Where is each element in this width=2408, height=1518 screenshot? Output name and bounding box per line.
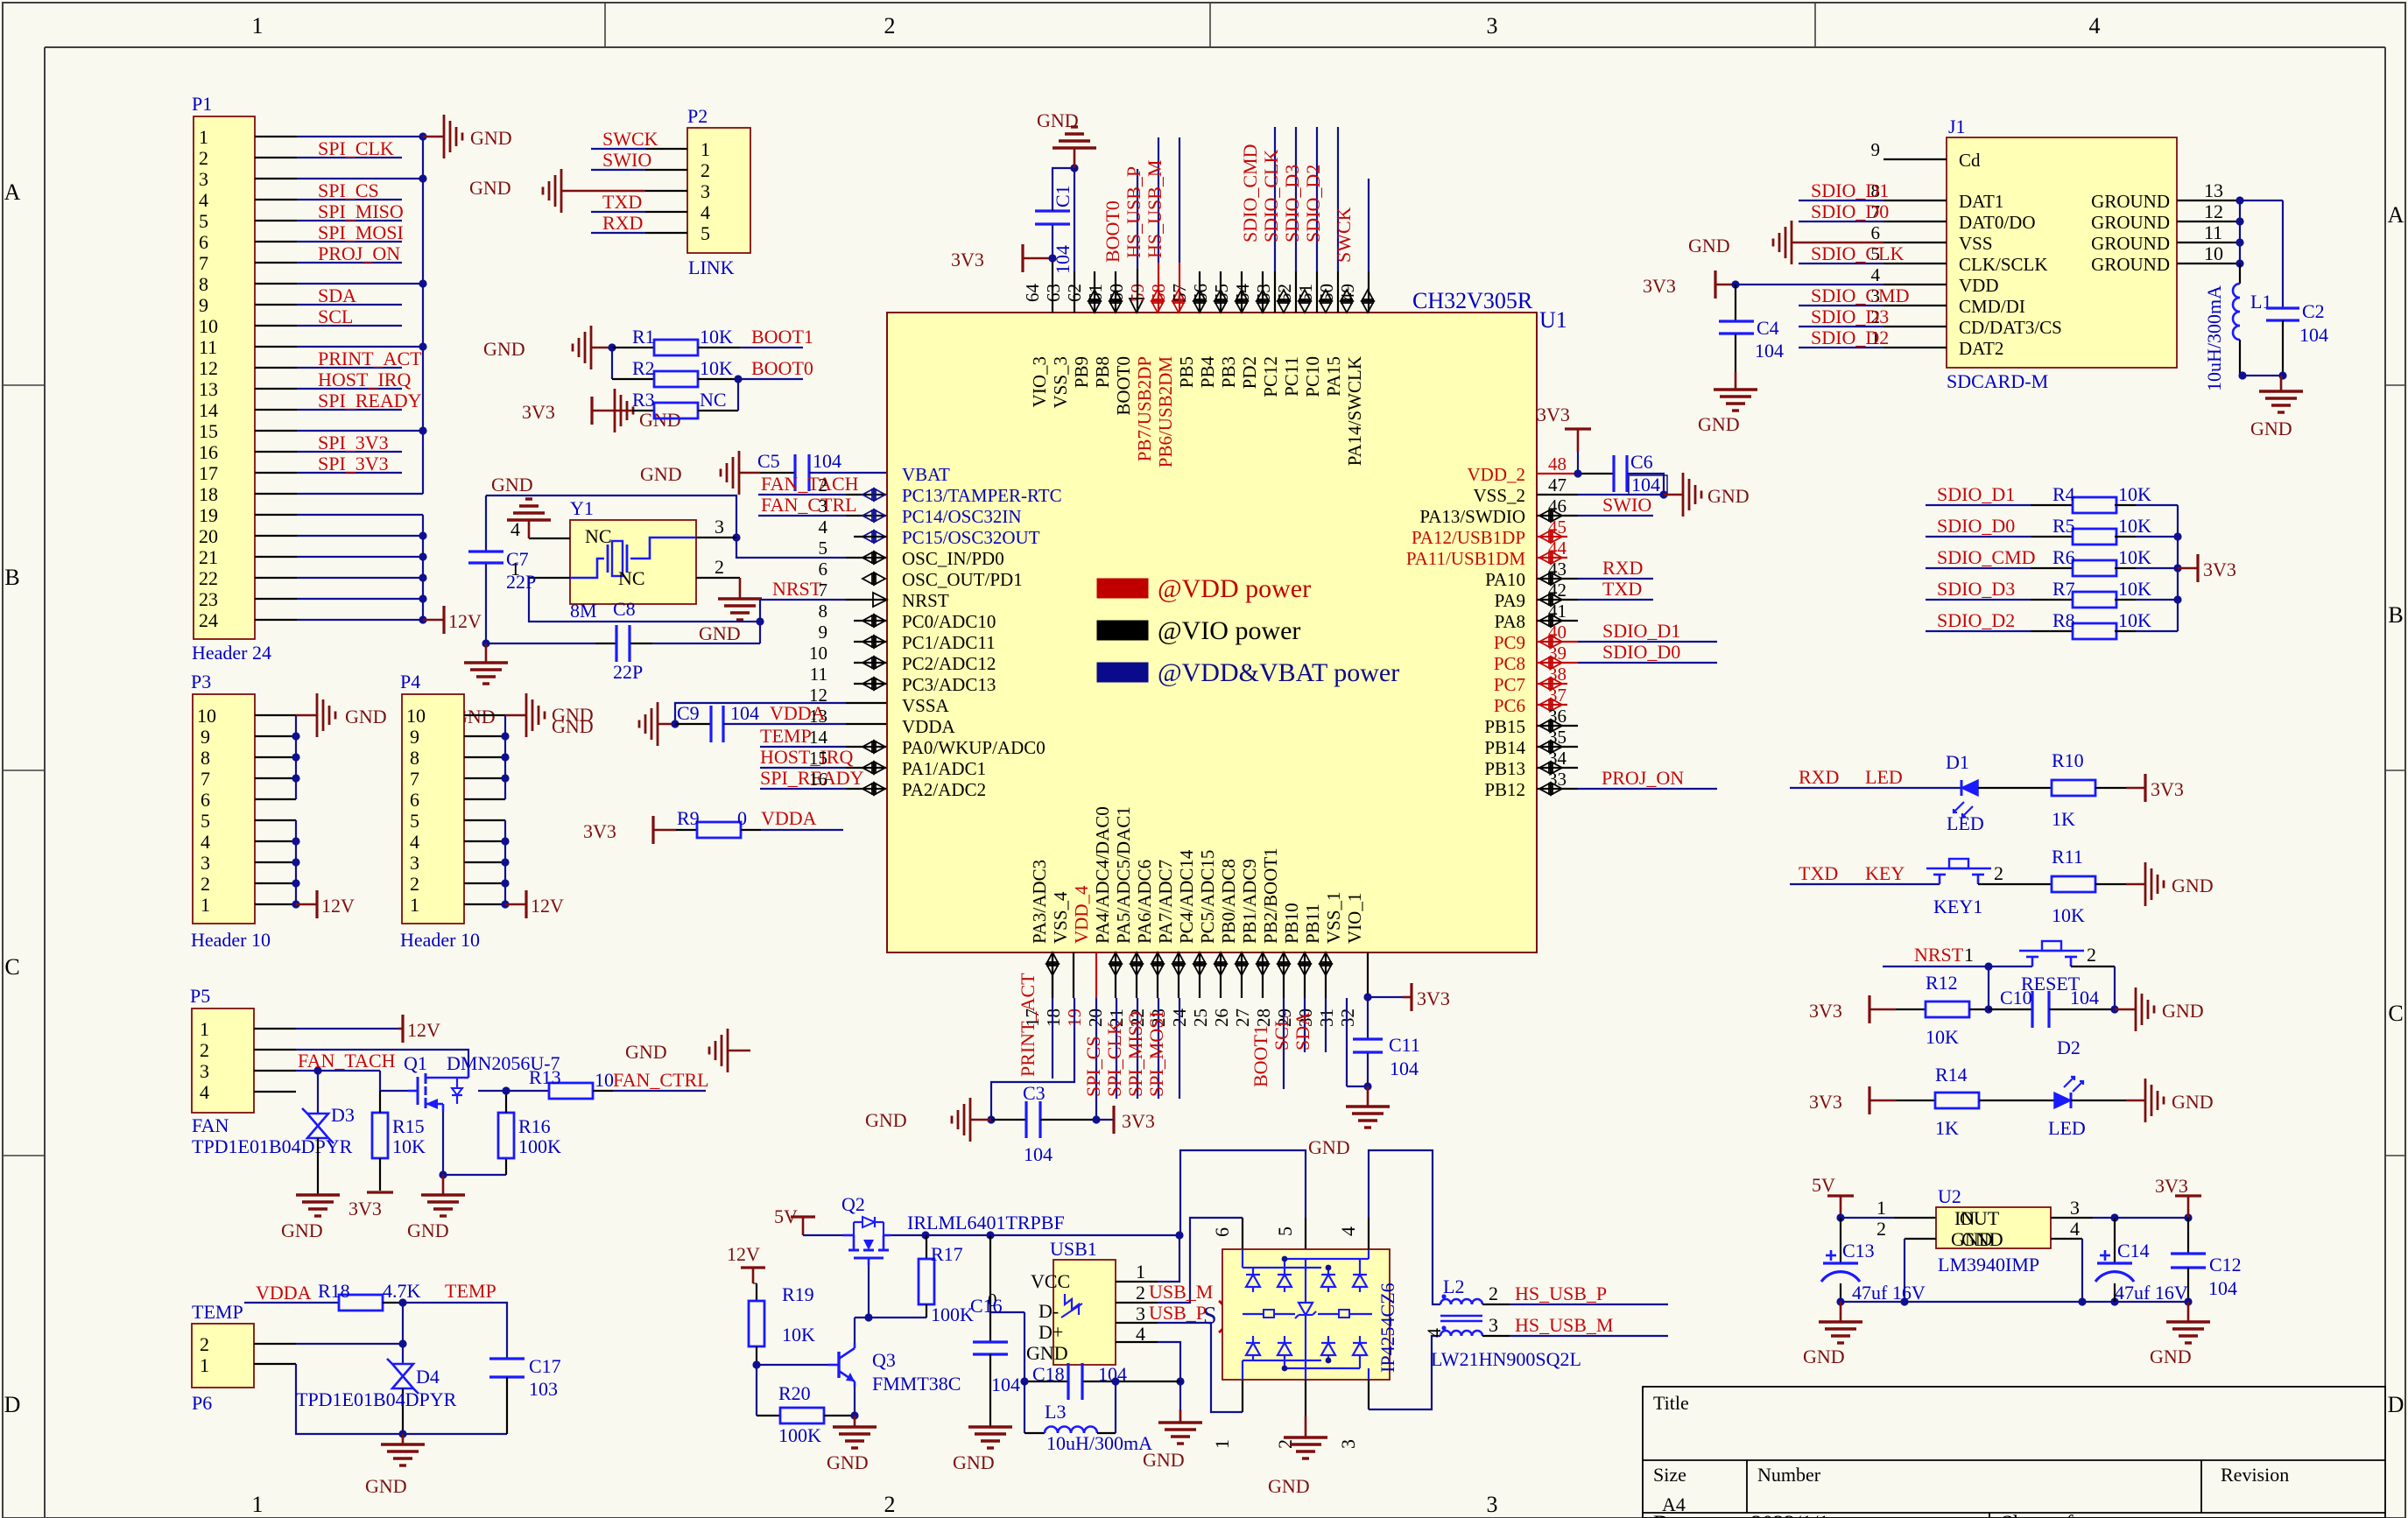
wire HOST_IRQ stub	[760, 767, 887, 769]
svg-text:104: 104	[2299, 324, 2328, 346]
regulator U2 LM3940IMP	[1936, 1207, 2051, 1248]
svg-text:50: 50	[1316, 284, 1337, 302]
pin 1 J1 DAT2	[1871, 327, 2004, 359]
svg-text:USB1: USB1	[1050, 1238, 1097, 1260]
power 3V3 R10	[2145, 774, 2184, 802]
part LW21HN900SQ2L	[1431, 1348, 1581, 1370]
value 47uf 16V C13	[1852, 1282, 1926, 1304]
svg-text:10: 10	[406, 705, 426, 727]
svg-text:5V: 5V	[1812, 1174, 1835, 1196]
junction C13 gnd	[1836, 1297, 1844, 1305]
svg-text:SPI_MOSI: SPI_MOSI	[1145, 1011, 1167, 1097]
svg-text:13: 13	[199, 378, 218, 400]
net label SDIO_CLK vertical	[1260, 150, 1282, 242]
value 104 C10	[2070, 987, 2099, 1008]
wire SDIO_D1 J1	[1799, 200, 1883, 201]
pin 43 PA10	[1485, 559, 1567, 590]
svg-text:15: 15	[809, 748, 827, 769]
svg-text:C6: C6	[1630, 451, 1653, 473]
ground earth C13	[1819, 1302, 1862, 1343]
ground earth Q3	[833, 1416, 877, 1448]
svg-text:3V3: 3V3	[2151, 778, 2184, 800]
esd array U3 IP4254CZ6 body	[1222, 1249, 1390, 1380]
resistor R2	[654, 371, 738, 387]
legend text @VDD power	[1158, 574, 1311, 603]
net label SDA	[318, 285, 356, 306]
svg-text:SDIO_D1: SDIO_D1	[1937, 483, 2015, 505]
svg-text:VIO_1: VIO_1	[1344, 893, 1365, 944]
junction C10 right	[2110, 1005, 2118, 1013]
net label HOST_IRQ	[318, 369, 411, 390]
svg-text:PB12: PB12	[1484, 779, 1525, 800]
pin 5 J1 CLK/SCLK	[1871, 243, 2048, 275]
net label SWIO	[602, 149, 651, 171]
svg-text:9: 9	[1871, 139, 1881, 160]
svg-text:PA12/USB1DP: PA12/USB1DP	[1412, 527, 1525, 548]
svg-text:GND: GND	[1026, 1342, 1068, 1364]
label C13	[1842, 1240, 1875, 1261]
pin number 5 IP4254	[1274, 1226, 1296, 1236]
pin number 3 L2	[1489, 1314, 1498, 1336]
junction rail USB1	[1175, 1231, 1183, 1239]
junction R16 top	[502, 1086, 510, 1094]
svg-text:DAT0/DO: DAT0/DO	[1959, 212, 2036, 233]
svg-text:2: 2	[1994, 862, 2003, 884]
svg-text:1: 1	[1964, 944, 1974, 966]
junction Q1 source R16	[439, 1170, 447, 1178]
svg-text:3: 3	[1337, 1439, 1359, 1449]
svg-text:3: 3	[200, 1060, 209, 1082]
svg-text:R14: R14	[1935, 1064, 1968, 1086]
svg-text:R2: R2	[632, 357, 655, 379]
P1 pin numbers	[199, 126, 218, 631]
net label SPI_READY	[318, 390, 422, 411]
svg-text:FAN: FAN	[192, 1114, 229, 1136]
value 104 C3	[1024, 1143, 1053, 1165]
power text GND P4 b	[552, 715, 594, 737]
pin number 2 L2	[1489, 1283, 1498, 1304]
legend VDD power swatch	[1097, 579, 1148, 598]
value 10K R12	[1926, 1026, 1959, 1048]
net label FAN_TACH P5	[298, 1050, 396, 1072]
svg-text:24: 24	[199, 609, 218, 631]
wire TXD_KEY	[1790, 883, 1940, 885]
label C6	[1630, 451, 1653, 473]
wire PRINT_ACT vertical	[1052, 952, 1053, 1079]
svg-text:PC12: PC12	[1260, 356, 1281, 397]
net label PROJ_ON	[318, 242, 400, 264]
wire SCL vertical	[1304, 998, 1306, 1052]
pin 50 PA15	[1316, 284, 1353, 397]
svg-text:15: 15	[199, 420, 218, 442]
svg-text:6: 6	[201, 789, 210, 811]
svg-text:SWCK: SWCK	[1333, 207, 1355, 263]
svg-text:10K: 10K	[700, 357, 733, 379]
pin 37 PC6	[1494, 685, 1567, 716]
svg-text:Q2: Q2	[841, 1193, 865, 1215]
svg-text:12V: 12V	[321, 895, 355, 917]
power 3V3 at R9	[583, 816, 676, 844]
net label SDIO_D0 pullup	[1937, 515, 2015, 537]
svg-text:GND: GND	[469, 177, 511, 199]
svg-text:25: 25	[1190, 1008, 1211, 1027]
svg-text:VDD_2: VDD_2	[1468, 464, 1526, 485]
svg-text:8: 8	[201, 747, 210, 769]
svg-text:3: 3	[1487, 1492, 1498, 1517]
net label USB_M	[1149, 1281, 1213, 1303]
svg-text:C11: C11	[1389, 1034, 1420, 1056]
pin 24 PC4/ADC14	[1169, 849, 1206, 1027]
svg-text:18: 18	[199, 483, 218, 505]
pin 35 PB14	[1484, 727, 1578, 758]
value 8M	[570, 600, 597, 622]
ground GND at R1	[573, 326, 612, 369]
svg-text:C14: C14	[2117, 1240, 2150, 1261]
svg-text:SDCARD-M: SDCARD-M	[1947, 370, 2048, 392]
svg-text:SDIO_D2: SDIO_D2	[1937, 609, 2015, 631]
svg-text:C2: C2	[2302, 300, 2325, 322]
wire SDIO_D0 right	[1537, 662, 1717, 664]
svg-text:11: 11	[810, 664, 827, 685]
ground GND at C6	[1664, 473, 1701, 517]
P3 pin numbers	[197, 705, 216, 916]
ground GND at C5	[721, 451, 760, 495]
junction Y1 pin3	[732, 533, 740, 541]
designator U2	[1938, 1185, 1961, 1207]
zone numbers top	[252, 13, 2101, 39]
svg-text:GND: GND	[640, 463, 682, 485]
P2 pin numbers	[701, 138, 710, 244]
pin number 1 RESET	[1964, 944, 1974, 966]
power text GND C16	[953, 1451, 995, 1473]
label R15	[392, 1115, 425, 1137]
pin 16 PA2/ADC2	[809, 769, 986, 800]
svg-text:GND: GND	[1698, 413, 1740, 435]
zone numbers bottom	[252, 1492, 1498, 1517]
svg-text:PB1/ADC9: PB1/ADC9	[1239, 859, 1260, 944]
junction rail R17	[921, 1231, 929, 1239]
junction FAN_TACH D3	[313, 1066, 321, 1074]
svg-text:PA10: PA10	[1485, 569, 1525, 590]
svg-text:SPI_CS: SPI_CS	[1082, 1036, 1104, 1097]
wire RXD	[1537, 578, 1653, 580]
wire BOOT0	[738, 378, 803, 380]
svg-text:HS_USB_P: HS_USB_P	[1515, 1283, 1607, 1304]
svg-text:GROUND: GROUND	[2091, 212, 2170, 233]
svg-text:56: 56	[1190, 284, 1211, 302]
pin 6 J1 VSS	[1871, 222, 1993, 254]
comment P6	[192, 1392, 212, 1414]
svg-text:3V3: 3V3	[1122, 1110, 1155, 1132]
value 10uH/300mA L3	[1046, 1432, 1152, 1454]
junction C7 bottom	[482, 639, 489, 647]
wire VSS_2 pin47	[1537, 494, 1664, 495]
wire P1 pin 6 net SPI_MOSI	[297, 241, 402, 242]
resistor R17	[919, 1235, 934, 1318]
label GND GND overlap	[1951, 1228, 2003, 1250]
svg-text:1: 1	[201, 894, 210, 916]
wire RESET to C10 right	[2071, 966, 2115, 1009]
wire P1 pin 2 net SPI_CLK	[297, 157, 402, 158]
svg-text:R15: R15	[392, 1115, 425, 1137]
svg-text:PC5/ADC15: PC5/ADC15	[1197, 850, 1218, 944]
svg-text:Q3: Q3	[872, 1349, 896, 1371]
svg-text:100K: 100K	[778, 1424, 821, 1446]
designator P1	[192, 93, 212, 115]
svg-text:SPI_CLK: SPI_CLK	[318, 137, 394, 159]
pin 6 OSC_OUT/PD1	[819, 559, 1023, 590]
designator J1	[1948, 116, 1966, 137]
wire SDA vertical	[1325, 998, 1327, 1052]
pin 64 VIO_3	[1022, 284, 1050, 408]
net label VDDA R9	[761, 807, 817, 829]
svg-text:VSS_2: VSS_2	[1473, 485, 1525, 506]
svg-text:104: 104	[2208, 1277, 2237, 1299]
net label SDIO_D3 J1	[1811, 306, 1889, 327]
ground earth C12	[2166, 1302, 2210, 1343]
svg-text:DAT2: DAT2	[1959, 338, 2003, 359]
diode D2 LED	[2054, 1077, 2083, 1108]
pin 7 NRST	[819, 580, 949, 611]
power 12V P3	[296, 890, 355, 918]
zone row ticks left	[3, 385, 45, 1156]
svg-text:PB5: PB5	[1176, 356, 1197, 388]
svg-text:11: 11	[2204, 221, 2222, 243]
mcu U1 CH32V305R body	[887, 313, 1537, 952]
svg-text:VSS_1: VSS_1	[1323, 891, 1344, 944]
wire SDIO_D3 vertical	[1316, 127, 1318, 313]
svg-text:PA8: PA8	[1495, 611, 1525, 632]
wire C18 row	[1024, 1381, 1180, 1382]
wire P1 pin 11	[297, 346, 423, 348]
svg-text:6: 6	[819, 559, 828, 580]
resistor R9	[676, 822, 761, 838]
pin 25 PC5/ADC15	[1190, 850, 1227, 1027]
power 3V3 R12	[1809, 995, 1896, 1023]
pin 56 PB4	[1190, 271, 1227, 388]
svg-text:GND: GND	[491, 474, 533, 495]
net label SDIO_CLK J1	[1811, 242, 1904, 264]
wire Y1 pin2 lead	[696, 577, 740, 579]
wire P1 pin 23	[297, 598, 423, 600]
label R1	[632, 326, 655, 348]
comment SDCARD-M	[1947, 370, 2048, 392]
svg-text:@VIO power: @VIO power	[1158, 616, 1300, 645]
svg-text:6: 6	[199, 231, 208, 253]
svg-text:2: 2	[1136, 1282, 1145, 1304]
power text GND C6	[1707, 485, 1750, 507]
svg-text:22P: 22P	[506, 571, 536, 593]
title block text Date partial	[1653, 1512, 2074, 1518]
P5 pin numbers	[200, 1018, 209, 1103]
pin 26 PB0/ADC8	[1211, 859, 1248, 1027]
svg-text:4: 4	[201, 831, 210, 853]
pin 52 PC11	[1274, 284, 1311, 397]
svg-text:PB13: PB13	[1484, 758, 1525, 779]
svg-text:L2: L2	[1443, 1276, 1464, 1297]
ground GND C10	[2115, 987, 2154, 1031]
net label USB_P	[1149, 1302, 1207, 1324]
svg-text:0: 0	[737, 807, 747, 829]
label R3	[632, 389, 655, 411]
designator TEMP P6	[192, 1301, 243, 1323]
svg-text:10K: 10K	[2118, 609, 2151, 631]
wire P1 pin 24	[297, 619, 423, 621]
svg-text:FAN_TACH: FAN_TACH	[761, 473, 859, 495]
power 3V3 pin32	[1403, 983, 1450, 1011]
svg-text:PC4/ADC14: PC4/ADC14	[1176, 849, 1197, 944]
svg-text:LED: LED	[1865, 766, 1903, 788]
net label RXD	[1602, 557, 1643, 579]
svg-text:PA5/ADC5/DAC1: PA5/ADC5/DAC1	[1113, 806, 1134, 944]
svg-text:PROJ_ON: PROJ_ON	[318, 242, 400, 264]
svg-text:5: 5	[1274, 1226, 1296, 1236]
ground earth C4	[1714, 372, 1757, 411]
label C3	[1023, 1082, 1046, 1104]
wire R1-R2 link	[612, 348, 654, 379]
svg-text:49: 49	[1337, 284, 1358, 302]
net label TEMP	[760, 725, 812, 747]
svg-text:10K: 10K	[2118, 578, 2151, 600]
svg-text:2: 2	[715, 556, 724, 578]
svg-text:FAN_CTRL: FAN_CTRL	[613, 1069, 709, 1091]
svg-text:SDIO_CMD: SDIO_CMD	[1239, 144, 1261, 242]
P6 pin numbers	[200, 1333, 209, 1376]
title block text Title	[1653, 1392, 1689, 1414]
P1 pin leads	[255, 137, 297, 620]
capacitor C12	[2171, 1218, 2206, 1302]
svg-text:100K: 100K	[931, 1304, 974, 1325]
svg-text:R17: R17	[931, 1243, 963, 1265]
power text GND D3	[281, 1219, 323, 1241]
resistor R20	[780, 1408, 855, 1423]
connector J1 SDCARD-M	[1947, 137, 2177, 368]
svg-text:PB2/BOOT1: PB2/BOOT1	[1260, 847, 1281, 944]
comment Header 10 P4	[400, 929, 480, 951]
label R19	[782, 1283, 814, 1305]
svg-text:PA6/ADC6: PA6/ADC6	[1134, 860, 1155, 944]
wire P2 pin 2 net SWIO	[591, 169, 687, 171]
value 22P C7	[506, 571, 536, 593]
svg-text:SDIO_CMD: SDIO_CMD	[1811, 285, 1909, 306]
wire BOOT1	[740, 347, 803, 348]
svg-text:2: 2	[410, 873, 419, 895]
wire U2 GND pin4	[2051, 1239, 2082, 1302]
net label SDIO_D0 J1	[1811, 200, 1889, 222]
svg-text:3V3: 3V3	[349, 1198, 382, 1219]
svg-text:P2: P2	[687, 105, 708, 127]
value 1K R14	[1935, 1117, 1959, 1139]
svg-text:C17: C17	[529, 1355, 561, 1377]
label C9	[677, 702, 700, 724]
svg-text:PA1/ADC1: PA1/ADC1	[902, 758, 986, 779]
power text GND Y1 pin2	[699, 622, 741, 644]
svg-text:4: 4	[1423, 1328, 1445, 1338]
svg-text:TEMP: TEMP	[192, 1301, 243, 1323]
wire P2 pin 4 net TXD	[591, 211, 687, 213]
designator L2	[1443, 1276, 1464, 1297]
svg-text:16: 16	[809, 769, 827, 790]
label NC top	[585, 525, 612, 547]
label R16	[518, 1115, 551, 1137]
svg-text:SCL: SCL	[1271, 1016, 1292, 1051]
net label SWCK	[602, 128, 658, 150]
net label TXD	[1602, 578, 1642, 600]
P4 pin leads	[464, 715, 505, 904]
value NC R3	[700, 389, 727, 411]
capacitor C11	[1353, 997, 1383, 1086]
svg-text:2: 2	[884, 13, 896, 39]
comment LINK	[688, 257, 735, 278]
wire TEMP net	[403, 1303, 507, 1358]
wire IP4254 pin3 to L2 bottom	[1369, 1336, 1440, 1409]
pin number 6 IP4254	[1211, 1227, 1233, 1237]
svg-text:PC11: PC11	[1281, 356, 1302, 397]
svg-text:1: 1	[252, 1492, 264, 1517]
ground GND P3	[296, 693, 335, 737]
P3 pin leads	[255, 715, 296, 904]
net label PRINT_ACT	[318, 348, 422, 369]
label C2	[2302, 300, 2325, 322]
resistor R13	[549, 1083, 613, 1099]
wire C16 tap to C18	[990, 1312, 1024, 1381]
svg-text:GND: GND	[1037, 109, 1079, 131]
svg-text:NC: NC	[618, 567, 645, 589]
svg-text:1: 1	[199, 126, 208, 148]
svg-text:PC3/ADC13: PC3/ADC13	[902, 674, 996, 695]
pin number 2 IP4254	[1274, 1439, 1296, 1449]
junction C3 left	[987, 1115, 995, 1123]
junction pin48 3V3	[1574, 469, 1581, 477]
label R14	[1935, 1064, 1968, 1086]
svg-text:GND: GND	[2250, 418, 2292, 439]
junction VDD_4 3V3	[1092, 1115, 1100, 1123]
ground GND floating symbol	[709, 1029, 750, 1072]
wire SDIO_D2 vertical	[1337, 127, 1339, 313]
svg-text:104: 104	[991, 1374, 1020, 1395]
ground GND J1 VSS	[1773, 221, 1883, 264]
power text GND top	[1037, 109, 1079, 131]
svg-text:BOOT1: BOOT1	[1250, 1025, 1271, 1087]
wire FAN_CTRL	[758, 515, 887, 517]
power text GND D2	[2172, 1091, 2214, 1113]
svg-text:PC6: PC6	[1494, 695, 1525, 716]
ground earth Q1	[421, 1175, 465, 1216]
svg-text:@VDD power: @VDD power	[1158, 574, 1311, 603]
label R9	[677, 807, 700, 829]
svg-text:NRST: NRST	[902, 590, 949, 611]
wire P4 12V group	[504, 820, 506, 904]
value 22P C8	[613, 661, 643, 683]
pin 15 PA1/ADC1	[809, 748, 986, 779]
svg-text:HS_USB_P: HS_USB_P	[1123, 166, 1144, 258]
svg-text:SDIO_D1: SDIO_D1	[1811, 179, 1889, 201]
net label BOOT0	[751, 357, 813, 379]
svg-text:GND: GND	[1688, 235, 1730, 257]
legend text @VDD&VBAT power	[1158, 658, 1399, 687]
svg-text:Q1: Q1	[404, 1052, 427, 1074]
svg-text:VBAT: VBAT	[902, 464, 950, 485]
svg-text:4: 4	[510, 518, 520, 540]
wire Y1 pin4	[529, 538, 570, 539]
label D4	[416, 1366, 440, 1388]
net label SDIO_CMD J1	[1811, 285, 1909, 306]
net label SDA vertical	[1292, 1012, 1313, 1051]
svg-text:48: 48	[1548, 453, 1567, 474]
resistor R6	[2073, 560, 2178, 576]
connector P6 TEMP	[192, 1324, 254, 1388]
ground GND at C9	[639, 702, 675, 746]
